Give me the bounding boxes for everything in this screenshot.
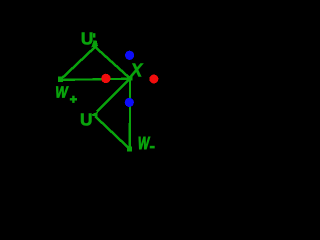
arrowhead at U' <box>91 40 98 47</box>
svg-text:X: X <box>129 60 143 80</box>
node U-prime apex junction <box>93 46 97 49</box>
svg-text:U: U <box>80 109 92 129</box>
node: blue data point below X <box>125 98 134 107</box>
svg-text:W: W <box>138 134 151 154</box>
svg-text:W: W <box>55 84 68 101</box>
wire X to U (vector shaft) <box>97 78 130 111</box>
wire U to W- <box>95 116 129 149</box>
node X (junction) <box>128 76 132 80</box>
wire U' to X <box>95 47 130 78</box>
node: red data point on W+X line <box>101 74 110 83</box>
wire W+ to X (horizontal) <box>61 79 130 80</box>
node: red data point right of X <box>149 75 158 84</box>
wire W+ to U' (vector shaft) <box>61 47 95 79</box>
node W- (square marker) <box>127 146 132 151</box>
arrowhead at U <box>92 112 98 117</box>
svg-text:U: U <box>81 28 93 48</box>
node W+ (square marker) <box>58 76 63 81</box>
node: blue data point top <box>125 51 134 60</box>
wire X to W- (vertical) <box>129 78 132 148</box>
